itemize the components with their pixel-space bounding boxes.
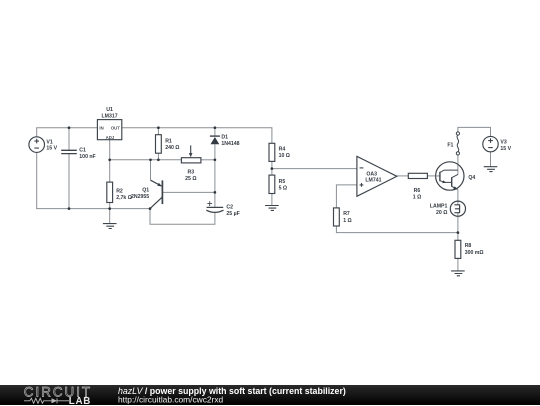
- svg-text:1 Ω: 1 Ω: [343, 218, 352, 224]
- svg-text:Q1: Q1: [142, 187, 149, 193]
- wire mid horizontal ADJ to R3: [110, 159, 182, 161]
- diode D1: [210, 136, 220, 144]
- svg-text:2N2955: 2N2955: [131, 194, 149, 200]
- wire U1 OUT rail to R4 corner: [122, 127, 272, 129]
- svg-text:D1: D1: [221, 134, 228, 140]
- svg-text:15 V: 15 V: [500, 146, 511, 152]
- capacitor C1: [61, 150, 77, 153]
- svg-text:U1: U1: [106, 107, 113, 113]
- op-amp OA3 LM741: [357, 156, 397, 196]
- ground under V3: [484, 167, 498, 172]
- resistor R1: [156, 135, 162, 154]
- lamp LAMP1: [450, 201, 465, 216]
- svg-text:25 Ω: 25 Ω: [185, 176, 196, 182]
- svg-text:1N4148: 1N4148: [221, 141, 239, 147]
- svg-text:10 Ω: 10 Ω: [279, 153, 290, 159]
- wire R1 bottom lead: [157, 153, 159, 160]
- wire Q4 collector vertical: [457, 155, 459, 175]
- wire LAMP1 bottom to R8: [457, 213, 459, 240]
- svg-text:R4: R4: [279, 147, 286, 153]
- wire R1 top lead: [157, 128, 159, 135]
- wire D1 top lead: [214, 128, 216, 136]
- svg-text:R1: R1: [165, 139, 172, 145]
- resistor R6: [408, 173, 427, 178]
- svg-text:5 Ω: 5 Ω: [279, 186, 288, 192]
- svg-text:LAB: LAB: [69, 396, 91, 406]
- svg-text:V1: V1: [46, 139, 52, 145]
- svg-text:LM317: LM317: [102, 114, 118, 120]
- transistor Q1 2N2955: [150, 180, 162, 208]
- fuse F1: [456, 132, 459, 155]
- resistor R7: [334, 208, 340, 226]
- logo resistor diode squiggle: [24, 398, 69, 403]
- svg-text:R8: R8: [465, 243, 472, 249]
- junction ADJ node: [108, 158, 111, 161]
- svg-text:LAMP1: LAMP1: [430, 203, 448, 209]
- svg-text:300 mΩ: 300 mΩ: [465, 250, 484, 256]
- wire top rail V1 to U1 IN: [36, 127, 97, 129]
- wire R5 bottom lead: [271, 194, 273, 206]
- wire op-amp output to R6: [397, 175, 408, 177]
- junction R2 bottom: [108, 207, 111, 210]
- svg-text:IN: IN: [99, 125, 103, 130]
- resistor R2: [107, 182, 113, 202]
- wire inverting input from R4 R5 node: [272, 168, 357, 170]
- wire ground stem under R2: [109, 209, 111, 224]
- svg-text:Q4: Q4: [468, 175, 475, 181]
- junction Q1 base node: [214, 191, 217, 194]
- junction R8 top: [457, 231, 460, 234]
- wire Q4 emitter to LAMP1: [457, 189, 459, 204]
- wire Q1 emitter vertical: [150, 160, 152, 181]
- wire V1 top vertical: [36, 128, 38, 137]
- transistor Q4 darlington: [436, 162, 464, 190]
- wire D1 bottom lead: [214, 144, 216, 159]
- svg-text:OUT: OUT: [111, 125, 120, 130]
- svg-text:V3: V3: [500, 140, 506, 146]
- svg-text:15 V: 15 V: [46, 146, 57, 152]
- wire C1 top lead: [68, 128, 70, 150]
- wire bottom rail: [36, 208, 150, 210]
- svg-text:240 Ω: 240 Ω: [165, 145, 179, 151]
- wire C1 bottom lead: [68, 154, 70, 209]
- wire node x215 vertical D1 to C2: [214, 160, 216, 207]
- svg-text:LM741: LM741: [365, 178, 381, 184]
- svg-text:F1: F1: [447, 143, 453, 149]
- junction R1 top: [157, 126, 160, 129]
- svg-text:100 nF: 100 nF: [79, 154, 95, 160]
- wire R7 bottom to node: [336, 226, 458, 233]
- resistor R4: [269, 143, 275, 161]
- wire F1 top to V3: [458, 127, 491, 136]
- junction Q1 collector: [149, 207, 152, 210]
- footer bar: [0, 385, 540, 405]
- voltage source V1: [29, 137, 45, 153]
- svg-text:25 µF: 25 µF: [226, 211, 239, 217]
- svg-text:R6: R6: [414, 188, 421, 194]
- capacitor C2 polarized: [206, 201, 223, 212]
- wire R2 bottom lead: [109, 203, 111, 209]
- svg-text:2,7k Ω: 2,7k Ω: [116, 195, 132, 201]
- op-amp U1 LM317 box: [97, 120, 121, 140]
- ground under R5: [265, 206, 279, 211]
- svg-text:R5: R5: [279, 179, 286, 185]
- ground under R8: [451, 271, 465, 276]
- wire R8 bottom lead: [457, 258, 459, 270]
- resistor R5: [269, 175, 275, 193]
- junction R1 bottom: [157, 158, 160, 161]
- wire U1 ADJ lead: [109, 140, 111, 160]
- wire Q1 base horizontal: [163, 191, 215, 193]
- svg-text:20 Ω: 20 Ω: [436, 210, 447, 216]
- wire R3 right lead: [201, 159, 215, 161]
- wire V3 bottom lead: [490, 152, 492, 167]
- wire noninverting input to R7: [336, 185, 357, 208]
- junction R4 R5: [271, 167, 274, 170]
- svg-text:ADJ: ADJ: [106, 135, 115, 140]
- junction Q1 emitter node: [149, 158, 152, 161]
- voltage source V3: [483, 136, 498, 151]
- wire R6 to Q4 base: [427, 175, 440, 177]
- svg-text:C2: C2: [226, 205, 233, 211]
- junction R3 right: [214, 158, 217, 161]
- wire R4 top lead: [271, 127, 273, 143]
- potentiometer R3: [181, 145, 201, 163]
- junction D1 top: [214, 126, 217, 129]
- junction C1 bottom: [68, 207, 71, 210]
- svg-text:R2: R2: [116, 189, 123, 195]
- wire V1 bottom lead: [36, 152, 38, 208]
- resistor R8: [455, 240, 461, 258]
- junction C1 top: [68, 126, 71, 129]
- wire R4 to R5 vertical: [271, 161, 273, 175]
- svg-text:R7: R7: [343, 211, 350, 217]
- wire R2 top lead: [109, 160, 111, 182]
- svg-text:C1: C1: [79, 148, 86, 154]
- svg-text:R3: R3: [187, 169, 194, 175]
- wire lower loop Q1 collector to C2 bottom: [150, 209, 215, 225]
- svg-text:1 Ω: 1 Ω: [413, 194, 422, 200]
- svg-text:http://circuitlab.com/cwc2rxd: http://circuitlab.com/cwc2rxd: [118, 394, 224, 404]
- ground under R2: [103, 224, 117, 229]
